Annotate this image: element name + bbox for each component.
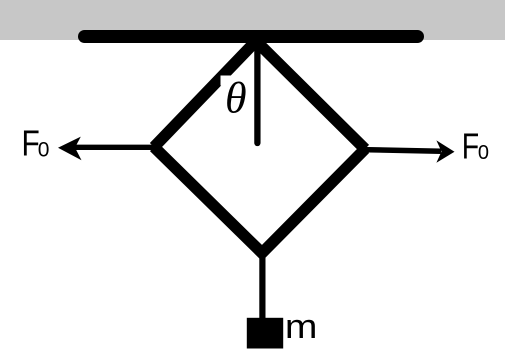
vertical reference line [254,43,260,143]
hanging string to mass [259,253,265,322]
ceiling band [0,0,505,40]
ceiling bar [85,30,418,43]
svg-text:0: 0 [38,138,50,161]
label F0 right [462,125,479,166]
right force arrowhead [436,140,454,162]
svg-text:F: F [462,125,479,166]
label F0 left [22,124,40,164]
left force arrow shaft [73,145,156,150]
label m [285,308,318,346]
svg-text:0: 0 [478,142,489,164]
right force arrow shaft [362,150,441,152]
notch artifact on upper-left string [221,76,235,86]
svg-text:m: m [285,308,318,346]
svg-text:θ: θ [225,74,247,123]
string diamond [154,41,365,253]
mass block [247,318,283,349]
left force arrowhead [58,137,82,161]
